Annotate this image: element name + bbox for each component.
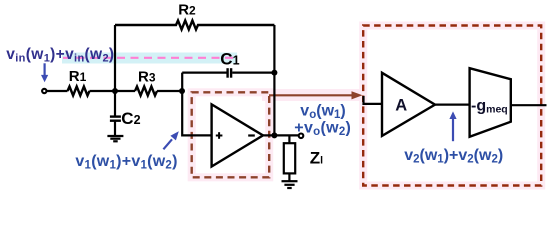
feedback highlight band (pink) op-amp to block — [262, 89, 366, 101]
svg-text:Zl: Zl — [310, 149, 323, 168]
op-amp U1 minus mark — [248, 134, 255, 136]
wire: right vertical (R2 rail down to op-amp output) — [273, 25, 275, 136]
node D junction dot (C1/right vertical) — [271, 70, 277, 76]
wire: left vertical (node B up to R2 rail) — [114, 25, 116, 91]
svg-text:A: A — [395, 97, 407, 115]
wire: box entry step to amp A input — [364, 96, 382, 104]
wire: node C up/down to op-amp input (vertical + horizontal) — [182, 73, 211, 136]
node B junction dot — [112, 88, 118, 94]
svg-text:vin(w1)+vin(w2): vin(w1)+vin(w2) — [6, 46, 114, 64]
node C junction dot — [179, 88, 185, 94]
svg-text:R1: R1 — [69, 68, 87, 85]
wire: op-amp output to vo terminal — [262, 134, 298, 136]
capacitor C1 plates — [228, 68, 232, 78]
amplifier A triangle — [382, 73, 435, 136]
annotation arrow: v2 (blue, up) — [449, 111, 456, 141]
node: vo terminal (open circle) — [299, 134, 304, 139]
wire: A output to gmeq — [434, 103, 470, 105]
node E junction dot (output) — [271, 132, 277, 138]
node: input terminal (open circle) — [42, 89, 46, 93]
svg-text:C1: C1 — [220, 49, 239, 68]
capacitor C1 right lead — [232, 71, 274, 73]
highlight band (cyan) on input net — [62, 53, 237, 64]
load ZL: top lead — [288, 135, 290, 143]
svg-text:v1(w1)+v1(w2): v1(w1)+v1(w2) — [75, 153, 177, 172]
wire: R1 to node B — [90, 90, 136, 92]
wire: gmeq output — [512, 104, 547, 106]
feedback arrow (vo to A input) — [269, 91, 363, 99]
load ZL rectangle — [284, 143, 295, 173]
dashed box U1 (op-amp stage) border — [192, 92, 270, 177]
highlighted net (pink dashed line) — [63, 57, 236, 59]
capacitor C1 (node C to output): left lead — [182, 71, 226, 73]
dashed box U2 (equivalent transconductor) border — [363, 26, 541, 186]
dashed box U1 (op-amp stage) pink glow — [192, 92, 270, 177]
svg-text:+vo(w2): +vo(w2) — [294, 120, 351, 139]
dashed box U2 (equivalent transconductor) pink glow — [363, 26, 541, 186]
wire: input terminal to R1 — [46, 90, 67, 92]
ground (below ZL) — [282, 181, 298, 188]
ground (below C2) — [107, 136, 123, 141]
resistor R2 (top feedback) with rail wires — [115, 21, 274, 30]
wire: R3 to node C — [157, 90, 182, 92]
op-amp U1 plus input mark — [216, 132, 223, 139]
svg-text:vo(w1): vo(w1) — [300, 103, 345, 122]
resistor R3 — [135, 87, 157, 96]
annotation arrow: input (blue, down) — [41, 63, 48, 82]
resistor R1 — [68, 87, 90, 96]
capacitor C2 plates — [110, 117, 121, 121]
svg-text:v2(w1)+v2(w2): v2(w1)+v2(w2) — [404, 147, 503, 166]
svg-text:C2: C2 — [121, 109, 140, 128]
svg-text:R2: R2 — [178, 2, 196, 19]
annotation arrow: v1 (blue, diagonal) — [163, 131, 178, 149]
capacitor C2 (node B to ground): top lead — [114, 91, 116, 116]
transconductor gmeq trapezoid — [470, 68, 511, 137]
op-amp U1 triangle — [212, 104, 263, 166]
load ZL bottom lead — [288, 173, 290, 181]
svg-text:R3: R3 — [138, 69, 156, 86]
capacitor C2 bottom lead — [114, 121, 116, 136]
